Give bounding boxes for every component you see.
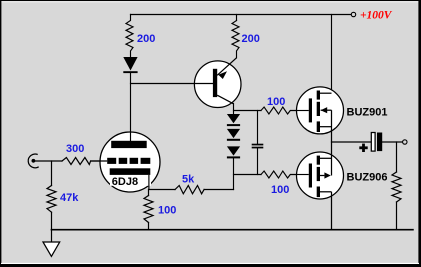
wire gate BUZ901 <box>297 110 309 112</box>
svg-text:BUZ906: BUZ906 <box>347 172 388 184</box>
svg-text:100: 100 <box>158 204 176 216</box>
wire 47k drop <box>51 161 53 186</box>
capacitor C1 stem top <box>257 111 259 144</box>
mosfet Q3 BUZ906 <box>297 142 344 230</box>
cathode lead <box>148 175 150 190</box>
resistor R4 100 bottom <box>261 171 297 178</box>
resistor R2 200 <box>232 21 239 58</box>
resistor R1 200 <box>126 15 133 58</box>
resistor R8 100 cathode <box>148 190 150 196</box>
grid lead <box>91 160 108 162</box>
svg-text:100: 100 <box>267 96 285 108</box>
wire output node <box>332 141 372 143</box>
source stub top <box>320 157 332 159</box>
wire 5k to diode line <box>204 189 233 191</box>
svg-text:300: 300 <box>66 143 84 155</box>
svg-text:6DJ8: 6DJ8 <box>112 176 138 188</box>
wire collector down / diode chain line <box>233 104 235 115</box>
wire bottom bias rail <box>234 174 262 176</box>
capacitor C1 stem bottom <box>257 148 259 174</box>
gate lead inside <box>297 110 309 112</box>
resistor R6 47k <box>47 186 56 213</box>
source-body vertical <box>331 142 333 176</box>
svg-text:200: 200 <box>242 33 260 45</box>
wire input to 300 <box>33 160 62 162</box>
resistor R9 load <box>392 172 401 202</box>
ground symbol <box>43 242 60 256</box>
drain vertical to ground <box>331 192 333 230</box>
diode D3 <box>227 129 240 141</box>
label 6DJ8 <box>110 175 151 186</box>
drain stub bottom <box>320 191 332 193</box>
wire top bias rail <box>234 110 262 112</box>
body-source vertical <box>331 110 333 142</box>
terminal +100V <box>351 12 355 16</box>
wire load resistor drop <box>396 142 398 172</box>
wire R2 top stub <box>236 15 238 21</box>
source stub <box>320 126 332 128</box>
cathode bar <box>110 168 151 175</box>
tube V1 6DJ8 <box>91 132 160 192</box>
wire 47k to gnd <box>51 212 53 241</box>
plate lead inside <box>130 132 132 141</box>
drain stub <box>320 92 332 94</box>
wire 300 to grid <box>91 160 100 162</box>
diode D2 <box>227 114 240 126</box>
wire plate line <box>130 73 132 142</box>
svg-text:200: 200 <box>137 33 155 45</box>
wire cap to terminal <box>382 141 402 143</box>
diode D4 <box>227 146 240 158</box>
svg-text:47k: 47k <box>60 192 79 204</box>
wire BUZ901 drain to rail <box>331 15 333 94</box>
diode D1 <box>123 57 137 73</box>
resistor R3 100 top <box>261 107 297 114</box>
terminal output <box>403 140 407 144</box>
svg-text:5k: 5k <box>182 174 195 186</box>
gate bar <box>309 164 312 188</box>
wire cathode wire 5k <box>149 189 175 191</box>
gate bar <box>309 98 312 122</box>
wire gate BUZ906 <box>297 174 309 176</box>
svg-text:+100V: +100V <box>360 10 393 22</box>
wire top rail +100V <box>131 14 352 16</box>
resistor R5 300 <box>62 158 91 165</box>
mosfet Q2 BUZ901 <box>297 87 344 142</box>
input connector J1 <box>28 154 38 168</box>
resistor R7 5k <box>175 186 204 194</box>
anode bar <box>111 141 147 148</box>
transistor Q1 <box>194 58 241 108</box>
svg-text:BUZ901: BUZ901 <box>347 106 388 118</box>
channel segments <box>317 91 320 100</box>
svg-text:100: 100 <box>271 184 289 196</box>
capacitor C2 electrolytic <box>359 133 382 153</box>
grid dashes <box>107 158 116 164</box>
wire ground rail <box>52 229 413 231</box>
body line with arrow <box>321 109 332 111</box>
gate lead inside <box>297 174 309 176</box>
capacitor C1 <box>252 144 264 149</box>
plus sign <box>359 146 367 149</box>
body line with arrow <box>320 175 324 177</box>
wire base wire <box>131 83 214 85</box>
channel segments <box>317 156 320 165</box>
